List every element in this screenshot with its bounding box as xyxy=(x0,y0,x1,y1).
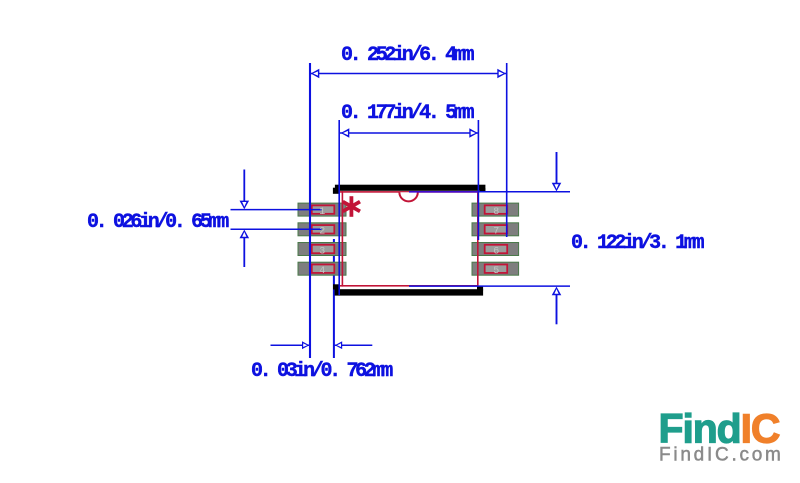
pad 8 xyxy=(472,203,519,216)
right dim lower leader xyxy=(556,293,558,324)
bottom dim left leader xyxy=(271,344,310,346)
arrowhead left toward x=333.3 xyxy=(335,341,342,349)
bottom dim right leader xyxy=(335,344,373,346)
FindIC logo xyxy=(659,406,784,466)
right dim upper leader xyxy=(556,152,558,185)
package bottom bar xyxy=(335,289,484,295)
pad 5 xyxy=(472,262,519,275)
pad 3 xyxy=(298,243,346,256)
top bar right step xyxy=(480,188,485,192)
arrowhead left 0.252 white notch xyxy=(313,71,318,75)
bottom bar right step xyxy=(477,287,483,291)
svg-text:6: 6 xyxy=(493,246,499,257)
svg-text:1: 1 xyxy=(319,207,325,218)
extension line left x=339.2 (over pads and bars) xyxy=(338,120,340,295)
bottom bar left step xyxy=(333,284,340,289)
arrowhead down at pad1 line xyxy=(240,201,250,210)
left pitch dim lower leader xyxy=(243,236,245,267)
right dim top line outer part xyxy=(478,191,570,193)
arrowhead down to body top xyxy=(552,183,562,192)
dimension line 0.252in top xyxy=(310,73,507,75)
arrowhead right 0.03 white notch xyxy=(303,343,307,347)
arrowhead right of 0.252 dim xyxy=(497,69,506,79)
svg-text:8: 8 xyxy=(493,207,499,218)
svg-text:FindIC.com: FindIC.com xyxy=(659,445,784,466)
svg-text:0. 026in/0. 65mm: 0. 026in/0. 65mm xyxy=(87,211,229,234)
pin1 notch semicircle xyxy=(399,192,417,201)
pad 7 xyxy=(472,223,519,236)
arrowhead down 0.026 white notch xyxy=(242,202,246,207)
arrowhead left of 0.177 dim xyxy=(341,128,350,138)
body top edge left stub xyxy=(340,191,343,193)
svg-text:4: 4 xyxy=(319,266,325,277)
pad 2 xyxy=(298,223,346,236)
svg-text:2: 2 xyxy=(319,227,325,238)
svg-text:3: 3 xyxy=(319,246,325,257)
pad1 center line xyxy=(231,209,322,211)
arrowhead right toward x=310 xyxy=(302,341,309,349)
arrowhead up at pad2 line xyxy=(240,230,250,239)
arrowhead left 0.03 white notch xyxy=(337,343,341,347)
left pitch dim upper leader xyxy=(243,170,245,204)
top bar left step xyxy=(333,188,339,194)
arrowhead down 0.122 white notch xyxy=(554,184,558,189)
package body outline xyxy=(342,192,477,286)
svg-text:0. 177in/4. 5mm: 0. 177in/4. 5mm xyxy=(341,102,475,125)
arrowhead right 0.177 white notch xyxy=(471,131,476,135)
arrowhead left 0.177 white notch xyxy=(343,131,348,135)
bottom dim right extension line (under pads) x=333.3 xyxy=(333,239,335,358)
arrowhead up 0.122 white notch xyxy=(554,289,558,294)
svg-text:0. 252in/6. 4mm: 0. 252in/6. 4mm xyxy=(341,44,475,67)
svg-text:0. 03in/0. 762mm: 0. 03in/0. 762mm xyxy=(251,360,393,383)
arrowhead up 0.026 white notch xyxy=(242,232,246,237)
extension line right x=506.5 xyxy=(506,63,508,237)
dimension line 0.177in xyxy=(340,132,478,134)
pad2 center line xyxy=(231,228,322,230)
pad 4 xyxy=(298,262,346,275)
package top bar xyxy=(335,185,486,191)
svg-text:7: 7 xyxy=(493,227,499,238)
arrowhead left of 0.252 dim xyxy=(311,69,320,79)
arrowhead right 0.252 white notch xyxy=(499,71,504,75)
extension line right x=478.2 xyxy=(477,120,479,240)
pad 6 xyxy=(472,243,519,256)
body bottom edge left stub xyxy=(340,285,343,287)
pin1 asterisk xyxy=(343,196,360,217)
arrowhead right of 0.177 dim xyxy=(469,128,478,138)
svg-text:0. 122in/3. 1mm: 0. 122in/3. 1mm xyxy=(571,232,705,255)
right dim bottom line xyxy=(409,285,570,287)
svg-text:5: 5 xyxy=(493,266,499,277)
right dim top line xyxy=(409,191,478,193)
extension line left x=310 xyxy=(309,63,311,358)
arrowhead up to body bottom xyxy=(552,287,562,296)
pad 1 xyxy=(298,203,346,216)
